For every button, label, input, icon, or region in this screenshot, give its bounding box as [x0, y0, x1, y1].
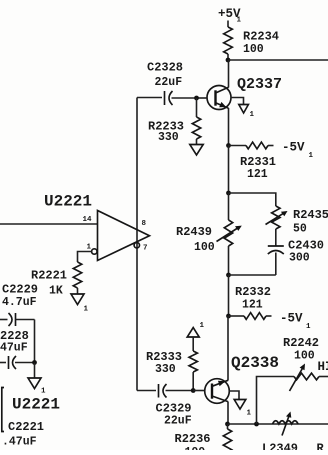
svg-text:7: 7	[143, 245, 148, 253]
svg-text:R2221: R2221	[31, 269, 67, 283]
wire feedback rail pin8 to pin7	[136, 98, 138, 391]
svg-text:C2329: C2329	[156, 402, 192, 416]
svg-text:Q2337: Q2337	[237, 76, 282, 93]
svg-text:47uF: 47uF	[0, 342, 28, 355]
resistor R2435 (variable)	[272, 206, 280, 229]
node R2435 branch junction	[226, 191, 231, 196]
svg-text:R2331: R2331	[240, 155, 276, 169]
inductor L2349 (variable)	[273, 421, 299, 424]
svg-text:1: 1	[41, 388, 46, 396]
resistor R2439 (variable)	[224, 220, 232, 246]
svg-text:1: 1	[237, 17, 242, 25]
svg-text:-5V: -5V	[280, 312, 303, 326]
svg-text:R2242: R2242	[283, 336, 319, 350]
wire Q2337 emitter down	[228, 108, 230, 146]
svg-text:R2439: R2439	[176, 225, 212, 239]
svg-text:100: 100	[194, 241, 215, 254]
ground (up) above R2333 (1)	[187, 328, 199, 338]
capacitor C2328	[164, 91, 166, 105]
wire cap junction to ground	[34, 363, 36, 378]
wire bottom rail	[228, 423, 328, 425]
svg-text:U2221: U2221	[44, 193, 92, 211]
resistor R2234	[224, 27, 233, 54]
wire Q2337 emitter stub to ground	[231, 98, 244, 105]
svg-text:R2435: R2435	[293, 208, 328, 222]
node collector Q2337 junction	[226, 58, 231, 63]
svg-text:1: 1	[306, 323, 311, 331]
node Q2338 base junction	[191, 388, 196, 393]
IC box edge (cut off)	[2, 388, 4, 432]
ground Q2338 (1)	[234, 400, 246, 410]
capacitor C2430	[268, 245, 284, 247]
resistor R2233	[192, 117, 200, 139]
svg-text:HI: HI	[318, 360, 328, 374]
svg-text:1: 1	[309, 152, 314, 160]
svg-text:.47uF: .47uF	[2, 436, 37, 449]
wire C2430 return	[229, 274, 276, 276]
svg-text:330: 330	[155, 363, 176, 376]
wire R2439 down	[228, 246, 230, 275]
svg-text:C2430: C2430	[288, 239, 324, 253]
svg-text:100: 100	[294, 350, 315, 363]
svg-text:121: 121	[247, 168, 268, 181]
svg-text:22uF: 22uF	[155, 76, 183, 89]
svg-text:300: 300	[289, 252, 310, 265]
svg-text:14: 14	[83, 216, 93, 224]
node R2332 junction	[226, 314, 231, 319]
svg-text:-5V: -5V	[282, 141, 305, 155]
wire feedback top corner to C2328	[137, 97, 162, 99]
wire base junction to Q2338	[193, 390, 204, 392]
wire Q2338 stub to ground	[229, 391, 239, 400]
capacitor C2329	[158, 384, 160, 398]
svg-text:L2349: L2349	[262, 442, 298, 451]
svg-text:50: 50	[293, 223, 307, 236]
ground Q2337 (1)	[239, 105, 249, 114]
wire R2242 branch up	[257, 377, 295, 425]
svg-text:R: R	[317, 442, 325, 451]
wire up-ground to R2333	[192, 337, 194, 351]
wire collector rail down to Q2337	[228, 60, 230, 88]
ground left caps (1)	[28, 378, 41, 389]
node R2236 junction	[225, 422, 230, 427]
wire R2435 to C2430	[275, 229, 277, 246]
capacitor C2228	[0, 362, 6, 364]
svg-text:1K: 1K	[49, 285, 63, 298]
wire output to right edge	[228, 59, 328, 61]
svg-text:C2221: C2221	[8, 420, 44, 434]
resistor R2333	[189, 351, 197, 372]
ground R2233	[190, 145, 203, 156]
transistor Q2337	[197, 86, 232, 110]
svg-text:8: 8	[142, 220, 147, 228]
svg-text:1: 1	[250, 111, 255, 119]
wire base junction down	[196, 98, 198, 117]
wire rail to R2332	[228, 275, 230, 316]
node R2331 junction	[226, 143, 231, 148]
wire input pin 14	[0, 223, 98, 225]
svg-text:C2328: C2328	[147, 61, 183, 75]
node Q2337 base junction	[194, 96, 199, 101]
svg-text:121: 121	[242, 299, 263, 312]
svg-text:100: 100	[185, 446, 206, 450]
wire to R2435 branch	[229, 193, 276, 206]
wire rail R2331 to R2435 tap	[228, 146, 230, 194]
svg-text:R2234: R2234	[243, 30, 279, 44]
capacitor C2229	[0, 319, 8, 321]
svg-text:R2333: R2333	[146, 350, 182, 364]
wire cap branch vertical	[34, 320, 36, 363]
op-amp U2221 triangle	[98, 211, 150, 261]
wire inverting input to R2221	[78, 252, 92, 263]
pin 1 bubble (inverting input)	[92, 249, 97, 254]
wire +5V to R2234	[227, 21, 229, 28]
svg-text:1: 1	[84, 306, 89, 314]
svg-text:U2221: U2221	[12, 396, 60, 414]
node C2430 return junction	[226, 273, 231, 278]
node cap junction	[32, 360, 37, 365]
resistor R2221	[73, 262, 81, 288]
transistor Q2338	[205, 379, 230, 404]
svg-text:1: 1	[247, 410, 252, 418]
resistor R2331	[229, 145, 247, 147]
resistor R2242 (variable)	[294, 373, 319, 380]
svg-text:C2229: C2229	[2, 283, 38, 297]
wire rail to Q2338	[227, 316, 229, 381]
svg-text:330: 330	[158, 131, 179, 144]
ground R2221 (1)	[71, 294, 84, 305]
svg-text:1: 1	[200, 322, 205, 330]
svg-text:1: 1	[87, 244, 92, 252]
pin 7 bubble	[134, 243, 139, 248]
svg-text:R2332: R2332	[235, 285, 271, 299]
wire Q2338 collector down	[227, 402, 229, 425]
svg-text:Q2338: Q2338	[231, 354, 279, 372]
resistor R2332	[229, 315, 245, 317]
svg-text:22uF: 22uF	[164, 415, 192, 428]
wire rail to R2439	[228, 193, 230, 220]
resistor R2236	[227, 424, 229, 429]
svg-text:100: 100	[243, 43, 264, 56]
svg-text:4.7uF: 4.7uF	[2, 296, 37, 309]
wire feedback bottom corner	[137, 390, 156, 392]
svg-text:R2236: R2236	[175, 432, 211, 446]
node R2242 branch junction	[254, 422, 259, 427]
